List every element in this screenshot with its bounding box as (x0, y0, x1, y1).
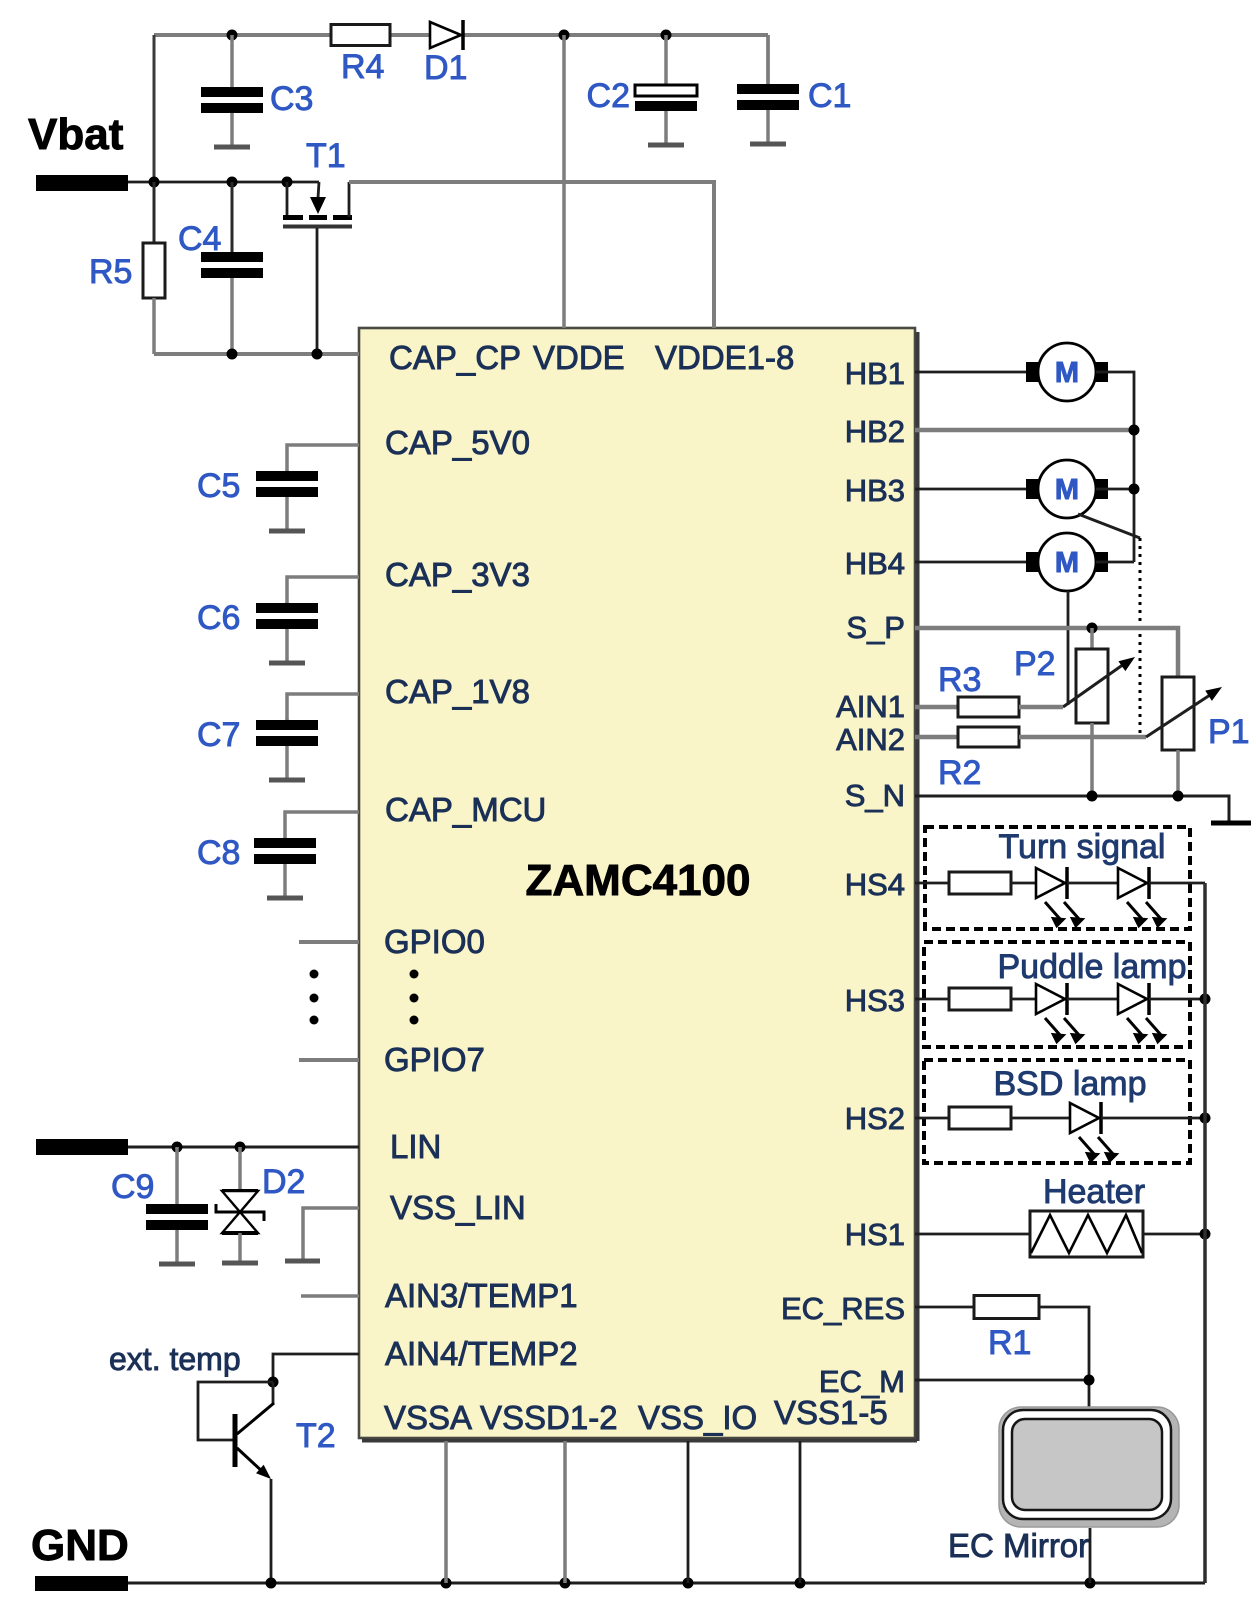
label BSD lamp (993, 1065, 1146, 1103)
junction GND at T2 (266, 1578, 277, 1589)
transistor T1 label (306, 137, 346, 175)
potentiometer P1 label (1208, 713, 1250, 751)
wire to turn LED1 (1011, 882, 1036, 885)
wire VSS_LIN to ground tick (303, 1208, 359, 1259)
junction CAP_CP rail at C4 (227, 349, 238, 360)
wire CAP_5V0 pin stub (287, 445, 359, 471)
junction HB2 common (1129, 425, 1140, 436)
LED bsd (1070, 1102, 1119, 1163)
svg-text:C8: C8 (197, 834, 240, 872)
wire AIN4/TEMP2 to T2 (273, 1354, 359, 1382)
wire HS2 to right rail (1101, 1117, 1205, 1120)
wire VDDE vertical (562, 35, 566, 328)
wire CAP_3V3 pin stub (287, 577, 359, 603)
pin label AIN2 (836, 722, 905, 757)
svg-text:C7: C7 (197, 716, 240, 754)
svg-text:ZAMC4100: ZAMC4100 (526, 856, 751, 905)
pin label EC_RES (781, 1291, 905, 1326)
LED puddle1 (1036, 983, 1085, 1044)
wire GND rail (128, 1582, 1205, 1585)
ground tick VSS_LIN (285, 1259, 320, 1264)
svg-text:T2: T2 (296, 1417, 336, 1455)
svg-text:AIN4/TEMP2: AIN4/TEMP2 (385, 1335, 578, 1372)
junction HB3 common (1129, 484, 1140, 495)
pin label HS2 (845, 1101, 905, 1136)
svg-text:GPIO0: GPIO0 (384, 923, 485, 960)
resistor R1 label (988, 1324, 1031, 1362)
label Puddle lamp (997, 948, 1186, 986)
wire HB1 pin to motor M1 (915, 371, 1026, 374)
wire T1 drain to VDDE1-8 (349, 182, 714, 328)
dotted wire from M2 to AIN2 net (1139, 538, 1142, 735)
resistor R2 label (938, 754, 981, 792)
transistor T2 label (296, 1417, 336, 1455)
IC U1 ZAMC4100 body (359, 328, 918, 1441)
svg-text:HS1: HS1 (845, 1217, 905, 1252)
pin label CAP_CP (389, 339, 521, 376)
svg-text:GPIO7: GPIO7 (384, 1041, 485, 1078)
svg-text:C9: C9 (111, 1168, 154, 1206)
svg-text:EC Mirror: EC Mirror (948, 1527, 1089, 1564)
wire HB3 pin to motor M2 (915, 488, 1026, 491)
svg-text:CAP_3V3: CAP_3V3 (385, 556, 530, 593)
pin label CAP_1V8 (385, 673, 530, 710)
junction LIN rail at D2 (235, 1142, 246, 1153)
wire left vertical from top rail to Vbat rail (153, 35, 156, 182)
node Vbat terminal bar (36, 175, 128, 191)
transistor T1 PMOS (283, 182, 352, 227)
svg-text:C2: C2 (587, 77, 630, 115)
svg-text:CAP_MCU: CAP_MCU (385, 791, 546, 828)
wire M3 bottom to AIN1 net (1067, 591, 1070, 705)
wire CAP_MCU pin stub (285, 812, 359, 838)
junction LIN rail at C9 (172, 1142, 183, 1153)
diode D1 label (424, 49, 467, 87)
wire HS3 pin (915, 998, 949, 1001)
wire AIN3/TEMP1 stub (301, 1294, 359, 1298)
wire M2 bottom diagonal to dotted branch (1078, 514, 1140, 538)
resistor R4 (331, 25, 390, 46)
pin label LIN (390, 1128, 441, 1165)
svg-text:HB4: HB4 (845, 546, 905, 581)
pin label AIN1 (836, 689, 905, 724)
pin label S_N (845, 778, 905, 813)
potentiometer P2 label (1014, 645, 1056, 683)
wire AIN2 pin to R2 (915, 735, 958, 740)
wire S_P pin to P1 top (915, 628, 1178, 677)
capacitor C6 label (197, 599, 240, 637)
svg-text:CAP_5V0: CAP_5V0 (385, 424, 530, 461)
transistor T2 NPN (235, 1382, 275, 1483)
capacitor C1 label (808, 77, 851, 115)
junction top rail at C2 (661, 30, 672, 41)
potentiometer P1 body (1162, 677, 1194, 750)
svg-text:S_N: S_N (845, 778, 905, 813)
pin label HB4 (845, 546, 905, 581)
resistor turn signal (949, 872, 1011, 894)
junction on Vbat rail at x=154 (149, 177, 160, 188)
svg-text:ext. temp: ext. temp (109, 1341, 241, 1377)
capacitor C9 (146, 1147, 208, 1264)
pin label VDDE (533, 339, 625, 376)
svg-text:VDDE1-8: VDDE1-8 (655, 339, 794, 376)
pin label VSS_IO (638, 1399, 757, 1436)
pin label AIN3/TEMP1 (385, 1277, 578, 1314)
pin label VSSD1-2 (480, 1399, 618, 1436)
label EC Mirror (948, 1527, 1089, 1564)
svg-text:R1: R1 (988, 1324, 1031, 1362)
GPIO ellipsis dots inside IC (410, 970, 419, 1025)
wire VSSD1-2 pin down (563, 1441, 567, 1583)
capacitor C2 label (587, 77, 630, 115)
ground tick S_N (1211, 821, 1251, 826)
svg-text:P2: P2 (1014, 645, 1056, 683)
diode D2 label (262, 1163, 305, 1201)
junction GND at VSS_IO (683, 1578, 694, 1589)
wire S_N pin to ground tick (915, 796, 1229, 822)
wire EC_RES pin to R1 (915, 1306, 974, 1309)
resistor R3 label (938, 661, 981, 699)
svg-text:M: M (1055, 547, 1079, 579)
svg-text:BSD lamp: BSD lamp (993, 1065, 1146, 1103)
node GND terminal bar (35, 1576, 128, 1591)
capacitor C8 label (197, 834, 240, 872)
dashed box BSD lamp (924, 1060, 1190, 1163)
wire T1 gate down to CAP_CP rail (316, 228, 319, 354)
EC mirror glass (999, 1407, 1179, 1527)
wire CAP_1V8 pin stub (287, 694, 359, 720)
svg-text:Vbat: Vbat (28, 110, 124, 159)
svg-text:C1: C1 (808, 77, 851, 115)
resistor R5 with vertical branch (143, 182, 165, 354)
junction S_N at P2 (1087, 791, 1098, 802)
junction right rail at HS3 (1200, 994, 1211, 1005)
wire VSS_IO pin down (687, 1441, 690, 1583)
resistor R4 label (341, 48, 384, 86)
wire CAP_CP bottom rail (154, 352, 359, 356)
label ext. temp (109, 1341, 241, 1377)
wire M3 right to common vertical (1096, 561, 1134, 564)
capacitor C3 (201, 35, 263, 147)
pin label EC_M (819, 1364, 905, 1399)
svg-text:R3: R3 (938, 661, 981, 699)
svg-text:HB2: HB2 (845, 414, 905, 449)
resistor puddle lamp (949, 988, 1011, 1010)
svg-text:Puddle lamp: Puddle lamp (997, 948, 1186, 986)
wire T2 base loop (198, 1382, 273, 1440)
wire HS2 pin (915, 1117, 949, 1120)
wire LIN rail (128, 1146, 359, 1149)
junction GND at VSSA (441, 1578, 452, 1589)
wire between turn LEDs (1067, 882, 1118, 885)
pin label VSS_LIN (390, 1189, 526, 1226)
junction top rail at VDDE (559, 30, 570, 41)
pin label VSS1-5 (774, 1394, 888, 1431)
wire to puddle LED1 (1011, 998, 1036, 1001)
wire GPIO0 pin stub (299, 940, 359, 944)
diode D1 (430, 20, 463, 50)
pin label HB3 (845, 473, 905, 508)
capacitor C8 (254, 837, 316, 898)
junction T2 collector-base tie (268, 1377, 279, 1388)
wire Vbat rail to T1 (128, 181, 319, 184)
svg-text:Turn signal: Turn signal (999, 828, 1166, 866)
label Heater (1043, 1173, 1145, 1211)
svg-text:AIN3/TEMP1: AIN3/TEMP1 (385, 1277, 578, 1314)
pin label HB2 (845, 414, 905, 449)
svg-text:R2: R2 (938, 754, 981, 792)
LED turn2 (1118, 867, 1167, 928)
pin label S_P (846, 610, 905, 645)
svg-text:D1: D1 (424, 49, 467, 87)
capacitor C6 (256, 602, 318, 663)
wire HS3 to right rail (1149, 998, 1205, 1001)
pin label GPIO0 (384, 923, 485, 960)
svg-text:D2: D2 (262, 1163, 305, 1201)
pin label HB1 (845, 356, 905, 391)
svg-text:AIN2: AIN2 (836, 722, 905, 757)
wire VSSA pin down (444, 1441, 448, 1583)
wire to BSD LED (1011, 1117, 1070, 1120)
pin label VDDE1-8 (655, 339, 794, 376)
svg-text:C6: C6 (197, 599, 240, 637)
wire HB4 pin to motor M3 (915, 561, 1026, 564)
wire HS4 to right rail (1149, 882, 1205, 885)
svg-text:CAP_1V8: CAP_1V8 (385, 673, 530, 710)
potentiometer P1 wiper arrow (1146, 682, 1225, 737)
svg-text:VSS_LIN: VSS_LIN (390, 1189, 526, 1226)
wire M2 right to common vertical (1096, 488, 1134, 491)
dashed box Puddle lamp (924, 942, 1190, 1047)
motor M2 (1026, 460, 1108, 518)
LED puddle2 (1118, 983, 1167, 1044)
wire P2 top stem (1090, 628, 1094, 649)
capacitor C3 label (270, 80, 313, 118)
capacitor C9 label (111, 1168, 154, 1206)
svg-text:VDDE: VDDE (533, 339, 625, 376)
svg-text:HS3: HS3 (845, 983, 905, 1018)
junction GND at EC mirror (1085, 1578, 1096, 1589)
junction right rail at heater (1200, 1229, 1211, 1240)
svg-text:AIN1: AIN1 (836, 689, 905, 724)
node Vbat label (28, 110, 124, 159)
resistor R2 (958, 727, 1019, 747)
IC U1 name label ZAMC4100 (526, 856, 751, 905)
resistor R5 label (89, 253, 132, 291)
svg-text:VSSD1-2: VSSD1-2 (480, 1399, 618, 1436)
wire between puddle LEDs (1067, 998, 1118, 1001)
resistor R3 (958, 697, 1019, 717)
wire T2 emitter to ground rail (270, 1479, 273, 1583)
wire AIN1 pin to R3 (915, 705, 958, 710)
node GND label (31, 1521, 129, 1570)
wire heater to right rail (1143, 1233, 1205, 1236)
pin label AIN4/TEMP2 (385, 1335, 578, 1372)
junction top rail at C3 (227, 30, 238, 41)
capacitor C5 (256, 470, 318, 531)
pin label CAP_5V0 (385, 424, 530, 461)
heater element (1030, 1211, 1143, 1257)
motor M1 (1026, 343, 1108, 401)
wire R3 to P2 wiper (1019, 705, 1063, 710)
diode D2 TVS (216, 1147, 264, 1263)
wire R2 to P1 wiper (1019, 735, 1146, 740)
wire HB2 pin (915, 428, 1134, 433)
svg-text:P1: P1 (1208, 713, 1250, 751)
wire EC mirror to ground (1089, 1528, 1092, 1583)
junction on Vbat rail at x=232 (C4) (227, 177, 238, 188)
dashed box Turn signal (925, 827, 1190, 929)
svg-text:EC_RES: EC_RES (781, 1291, 905, 1326)
potentiometer P2 body (1076, 649, 1108, 723)
svg-text:VSSA: VSSA (384, 1399, 472, 1436)
svg-text:R4: R4 (341, 48, 384, 86)
wire P2 bottom to S_N (1090, 723, 1094, 796)
svg-text:M: M (1055, 474, 1079, 506)
capacitor C2 (635, 35, 697, 145)
wire top rail corner down to C1 (766, 35, 770, 84)
junction EC_M (1084, 1375, 1095, 1386)
svg-text:S_P: S_P (846, 610, 905, 645)
svg-text:HS4: HS4 (845, 867, 905, 902)
svg-text:EC_M: EC_M (819, 1364, 905, 1399)
junction GND at VSS1-5 (795, 1578, 806, 1589)
capacitor C5 label (197, 467, 240, 505)
junction CAP_CP rail at T1 gate (312, 349, 323, 360)
svg-text:HB1: HB1 (845, 356, 905, 391)
svg-text:GND: GND (31, 1521, 129, 1570)
wire R1 to EC mirror branch (1039, 1307, 1089, 1410)
resistor BSD lamp (949, 1107, 1011, 1129)
capacitor C1 (737, 35, 799, 144)
GPIO ellipsis dots outside IC (310, 970, 319, 1025)
pin label CAP_3V3 (385, 556, 530, 593)
junction S_N at P1 (1173, 791, 1184, 802)
svg-text:C3: C3 (270, 80, 313, 118)
capacitor C4 (201, 182, 263, 354)
junction right rail at HS2 (1200, 1113, 1211, 1124)
wire HS1 pin to heater (915, 1233, 1030, 1236)
wire GPIO7 pin stub (299, 1058, 359, 1062)
svg-text:HS2: HS2 (845, 1101, 905, 1136)
svg-text:VSS_IO: VSS_IO (638, 1399, 757, 1436)
wire M1 right to common vertical (1096, 372, 1134, 562)
svg-text:T1: T1 (306, 137, 346, 175)
resistor R1 (974, 1296, 1039, 1319)
svg-text:C5: C5 (197, 467, 240, 505)
pin label CAP_MCU (385, 791, 546, 828)
node LIN terminal bar (36, 1139, 128, 1155)
svg-text:C4: C4 (178, 220, 221, 258)
wire EC_M pin (915, 1379, 1089, 1382)
potentiometer P2 wiper arrow (1063, 652, 1138, 707)
capacitor C7 label (197, 716, 240, 754)
capacitor C4 label (178, 220, 221, 258)
junction GND at VSSD1-2 (560, 1578, 571, 1589)
svg-text:R5: R5 (89, 253, 132, 291)
svg-text:CAP_CP: CAP_CP (389, 339, 521, 376)
svg-text:M: M (1055, 357, 1079, 389)
capacitor C7 (256, 719, 318, 780)
junction S_P at P2 (1087, 623, 1098, 634)
wire P1 bottom to S_N (1176, 750, 1180, 796)
motor M3 (1026, 533, 1108, 591)
wire right-hand common rail (1203, 883, 1207, 1583)
LED turn1 (1036, 867, 1085, 928)
svg-text:HB3: HB3 (845, 473, 905, 508)
pin label HS4 (845, 867, 905, 902)
svg-text:VSS1-5: VSS1-5 (774, 1394, 888, 1431)
pin label HS3 (845, 983, 905, 1018)
pin label VSSA (384, 1399, 472, 1436)
svg-text:LIN: LIN (390, 1128, 441, 1165)
label Turn signal (999, 828, 1166, 866)
wire VSS1-5 pin down (799, 1441, 802, 1583)
pin label HS1 (845, 1217, 905, 1252)
wire HS4 pin (915, 882, 949, 885)
junction on Vbat rail at x=287 (T1 source) (282, 177, 293, 188)
wire top charge-pump rail y=35 (154, 33, 768, 37)
pin label GPIO7 (384, 1041, 485, 1078)
svg-text:Heater: Heater (1043, 1173, 1145, 1211)
